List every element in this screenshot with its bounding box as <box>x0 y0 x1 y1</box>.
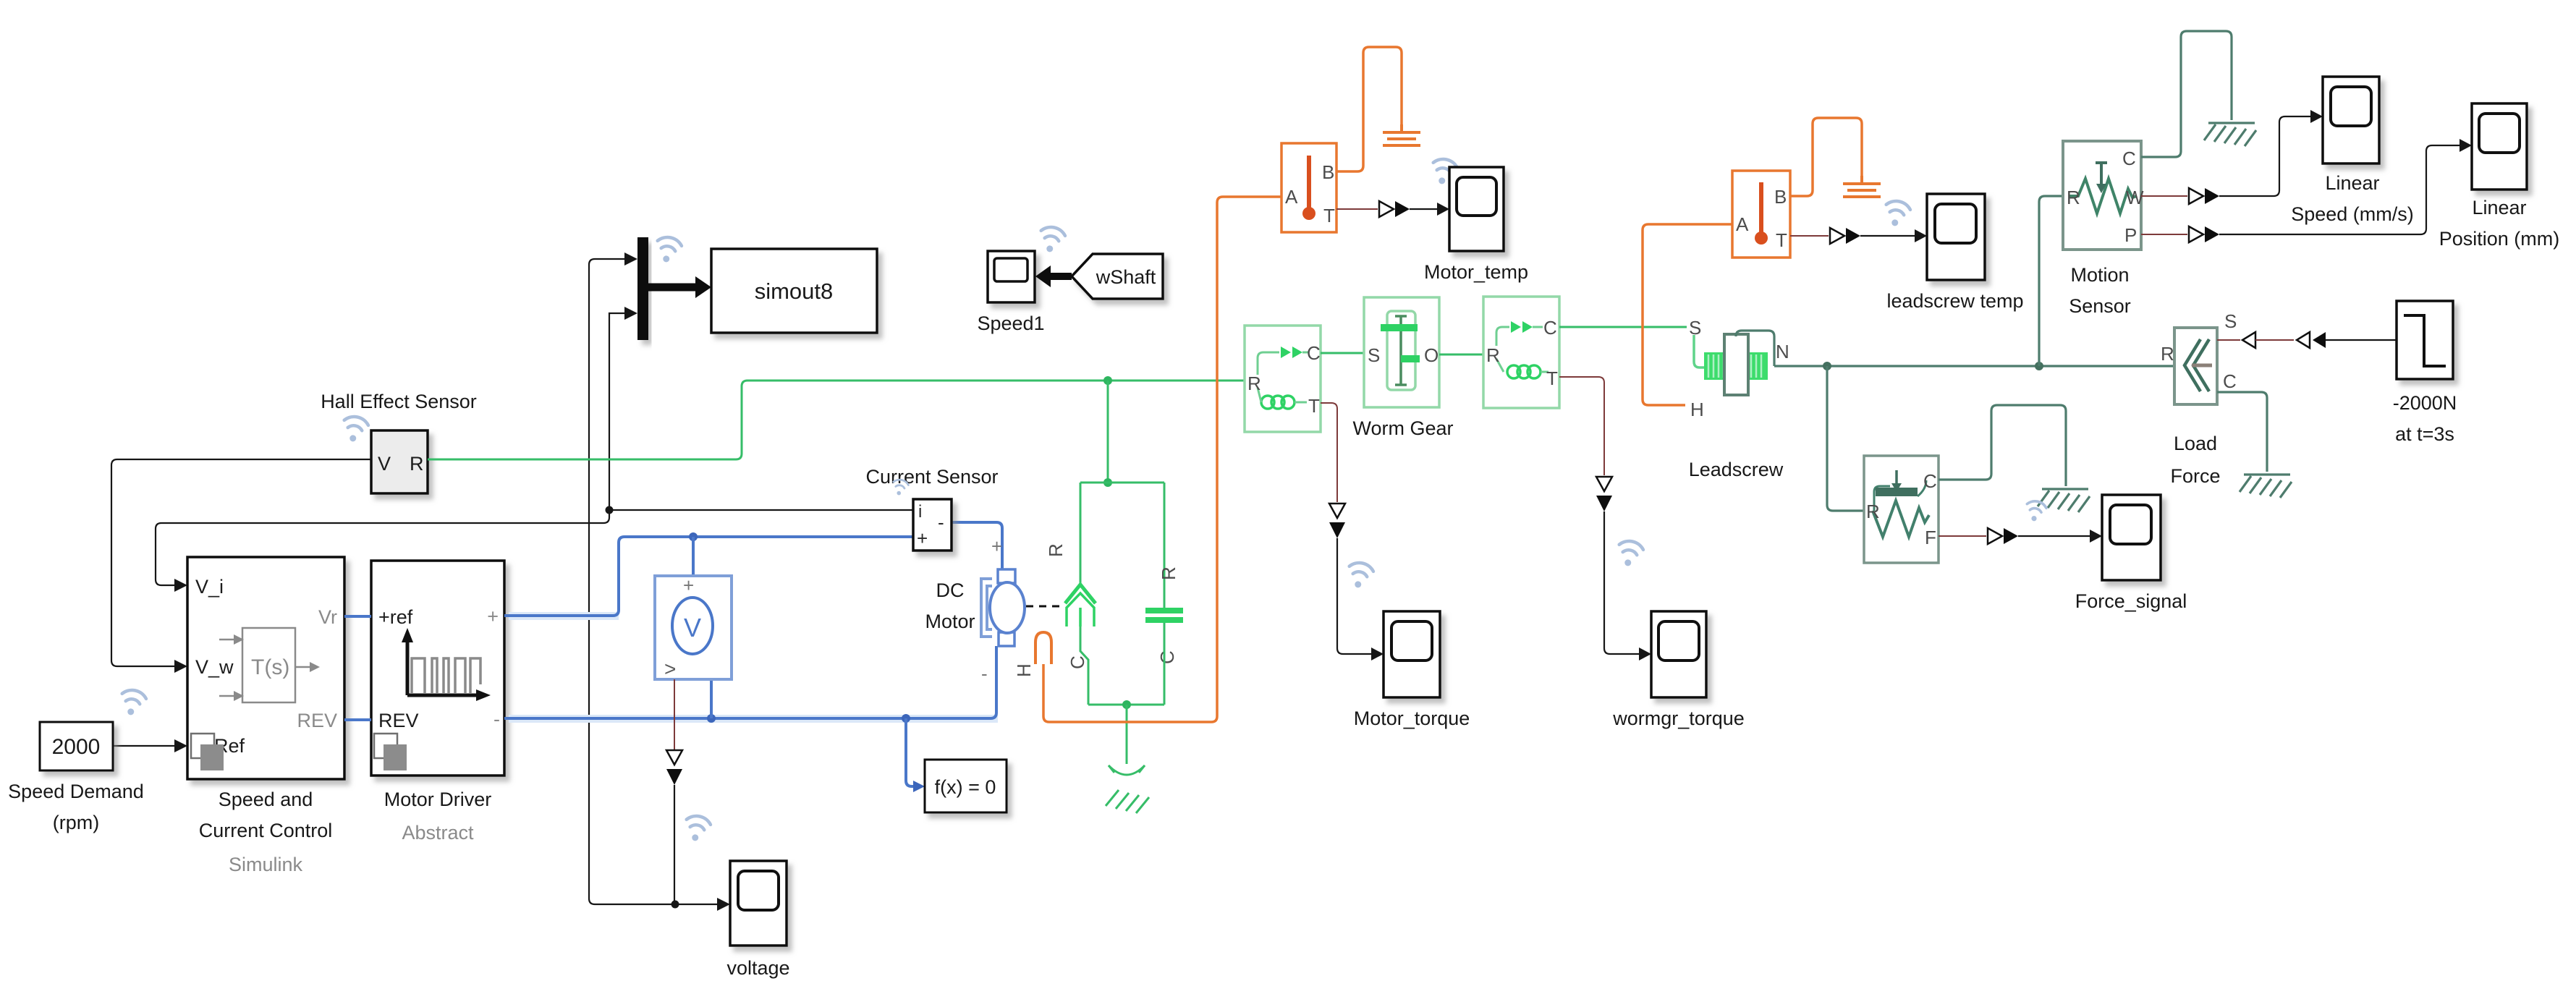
svg-text:C: C <box>1156 650 1178 664</box>
wire: position signal to Linear Position scope <box>2219 145 2460 234</box>
svg-text:Sensor: Sensor <box>2069 295 2131 317</box>
svg-text:A: A <box>1736 213 1749 235</box>
variant badge on controller <box>191 734 224 770</box>
label: Load Force <box>2170 433 2220 487</box>
svg-text:R: R <box>2161 343 2174 365</box>
svg-text:+: + <box>487 606 499 627</box>
svg-text:Speed and: Speed and <box>219 789 313 810</box>
svg-text:R: R <box>410 453 424 475</box>
selection halo under - return bus <box>509 715 998 723</box>
arrowhead into Motor_temp <box>1437 203 1449 216</box>
svg-text:Worm Gear: Worm Gear <box>1352 417 1453 439</box>
icon: PWM pulse train inside Motor Driver <box>407 641 478 695</box>
arrowhead into mux input 2 <box>624 307 637 320</box>
svg-text:R: R <box>1247 373 1261 394</box>
arrowhead into V_i <box>174 579 187 592</box>
svg-text:S: S <box>1368 344 1380 366</box>
block: Linear Position scope <box>2472 103 2527 190</box>
block: Speed Demand constant 2000 <box>40 722 113 770</box>
wire: force sensor C to translational reference (teal) <box>1939 405 2066 486</box>
wireless icon near constant <box>118 688 147 718</box>
wire: Worm Gear O to leadscrew friction R (green) <box>1439 354 1483 356</box>
PS-Simulink converter under voltage sensor <box>666 750 682 785</box>
block: f(x)=0 solver configuration <box>925 760 1007 812</box>
wire: sensor T output (maroon PS) <box>1336 208 1378 210</box>
arrowhead into Motor_torque <box>1371 647 1384 660</box>
arrowhead into V_w <box>174 660 187 673</box>
svg-text:H: H <box>1690 399 1704 420</box>
wireless icon near Hall sensor <box>340 415 369 444</box>
wire: Vr to +ref (blue) <box>344 615 371 618</box>
label: Speed Demand (rpm) <box>8 781 144 833</box>
svg-text:>: > <box>664 658 676 680</box>
svg-text:T: T <box>1546 368 1558 389</box>
wire: torque signal to Motor_torque scope <box>1337 538 1372 654</box>
svg-text:Force_signal: Force_signal <box>2075 590 2187 612</box>
svg-text:REV: REV <box>297 710 337 731</box>
wireless icon near force sensor ground <box>2024 499 2047 523</box>
svg-text:Linear: Linear <box>2325 172 2379 194</box>
PS-Simulink converter for speed signal <box>2189 188 2219 204</box>
variant badge on Motor Driver <box>374 734 407 770</box>
svg-text:at t=3s: at t=3s <box>2395 423 2454 445</box>
svg-text:S: S <box>2224 310 2237 332</box>
wire: motion sensor C to translational reference (teal) <box>2141 31 2232 157</box>
svg-text:Abstract: Abstract <box>402 822 474 844</box>
block: Hall Effect Sensor <box>371 430 428 493</box>
wire: torque signal to wormgr_torque scope <box>1604 511 1640 654</box>
damper (motor friction) icon <box>1045 543 1096 669</box>
block: Speed and Current Control subsystem <box>187 557 344 779</box>
wire: friction C to Leadscrew S (green) <box>1559 326 1687 328</box>
Simulink-PS converter for load force <box>2297 332 2326 348</box>
svg-text:+: + <box>991 535 1002 557</box>
svg-text:N: N <box>1776 341 1789 362</box>
svg-text:O: O <box>1424 344 1439 366</box>
wire: loop right branch upper (to inertia) <box>1164 483 1166 608</box>
wire: translational bus from Leadscrew N to Load Force R (teal) <box>1774 365 2174 367</box>
wire: motion sensor W output (maroon PS) <box>2141 195 2187 197</box>
wire: drop from shaft node to motor mechanical loop <box>1107 381 1109 483</box>
wire: mux output thick arrow to simout8 <box>648 276 711 298</box>
inertia icon (parallel plates) <box>1145 566 1183 664</box>
svg-text:B: B <box>1774 186 1787 208</box>
mux bar <box>637 237 648 340</box>
icon: T(s) transfer function inside controller <box>219 628 311 702</box>
wire: current sensor - output to DC motor + <box>952 522 1002 570</box>
wireless icon near Motor_torque <box>1345 561 1374 590</box>
junction: + node above voltage sensor <box>689 532 698 541</box>
svg-text:Force: Force <box>2170 465 2220 487</box>
svg-text:Speed Demand: Speed Demand <box>8 781 144 802</box>
svg-text:W: W <box>2126 187 2144 208</box>
tag: wShaft From <box>1072 254 1163 299</box>
PS-Simulink converter for force signal <box>1988 528 2018 544</box>
block: leadscrew shaft friction (green) <box>1483 297 1559 408</box>
wire: motion sensor P output (maroon PS) <box>2141 234 2187 235</box>
wire: drop from + node into voltage sensor <box>692 537 695 599</box>
svg-text:R: R <box>1486 344 1500 366</box>
block: DC Motor (electrical machine icon) <box>981 535 1025 684</box>
svg-text:C: C <box>1923 470 1937 492</box>
block: Motor_temp scope <box>1449 167 1504 251</box>
wire: voltage signal to mux input 1 (long riser) <box>589 259 675 904</box>
svg-text:leadscrew temp: leadscrew temp <box>1886 290 2023 312</box>
wire: Hall sensor V output to controller V_w <box>111 459 371 666</box>
arrowhead into Ref <box>174 739 187 752</box>
thermal mass 2 icon <box>1843 176 1881 197</box>
svg-text:+: + <box>683 574 694 596</box>
svg-text:Motor Driver: Motor Driver <box>384 789 492 810</box>
wire: friction T output (maroon PS) down <box>1321 403 1337 502</box>
ground: translational reference (motion sensor) <box>2204 123 2256 146</box>
wire: wShaft tag fat arrow into Speed1 <box>1035 266 1072 287</box>
label: -2000N at t=3s <box>2393 392 2457 445</box>
svg-text:T: T <box>1776 229 1787 251</box>
svg-text:V: V <box>684 613 701 642</box>
svg-text:Motor: Motor <box>925 611 975 632</box>
block: voltage sensor (blue) <box>655 574 732 680</box>
PS-Simulink converter for position signal <box>2189 226 2219 242</box>
svg-text:Linear: Linear <box>2472 197 2526 218</box>
label: Linear Position (mm) <box>2439 197 2560 250</box>
block: step source -2000N at t=3s <box>2397 301 2453 379</box>
wire: leadscrew thermal H to sensor A (orange) <box>1643 224 1732 405</box>
svg-text:C: C <box>1307 342 1321 364</box>
wireless icon near mux <box>653 235 682 265</box>
svg-text:V_i: V_i <box>195 576 224 598</box>
svg-text:Vr: Vr <box>318 606 337 628</box>
junction: loop bottom node <box>1122 700 1131 709</box>
wireless icon near current sensor <box>891 478 909 496</box>
PS-Simulink converter for motor torque <box>1329 504 1345 538</box>
block: leadscrew temp scope <box>1927 194 1985 280</box>
svg-text:P: P <box>2124 224 2137 246</box>
PS-Simulink converter for leadscrew temp <box>1830 228 1860 244</box>
svg-text:V: V <box>378 453 391 475</box>
svg-text:T(s): T(s) <box>251 655 289 679</box>
label: DC Motor <box>925 579 975 632</box>
svg-text:REV: REV <box>378 710 419 731</box>
wire: temp signal into Motor_temp scope <box>1410 208 1439 210</box>
svg-text:DC: DC <box>936 579 965 601</box>
DC motor thermal port H element (orange) <box>1013 632 1051 677</box>
svg-text:2000: 2000 <box>52 735 101 759</box>
ground: translational reference (load force) <box>2240 475 2292 498</box>
PS-Simulink converter for wormgear torque <box>1596 477 1612 511</box>
arrowhead into f(x)=0 <box>913 781 925 792</box>
wire: force sensor F output (maroon PS) <box>1939 535 1986 537</box>
wire: current signal branch to controller V_i <box>156 510 609 585</box>
svg-text:Leadscrew: Leadscrew <box>1689 459 1784 480</box>
wire: Motor Driver - output bus <box>504 646 996 718</box>
wire: bus tap up to motion sensor R (teal) <box>2039 196 2063 366</box>
svg-text:-: - <box>938 511 944 533</box>
wireless icon near wShaft <box>1037 225 1066 255</box>
wire: Motor Driver + output to current sensor + <box>504 537 913 616</box>
block: force sensor (teal) <box>1864 456 1939 563</box>
svg-text:Motor_temp: Motor_temp <box>1424 261 1528 283</box>
svg-text:-2000N: -2000N <box>2393 392 2457 414</box>
wire: loop left branch to damper <box>1080 483 1082 583</box>
junction: shaft node on green wire <box>1103 376 1112 385</box>
wire: bus tap to f(x)=0 solver <box>906 718 915 786</box>
svg-text:R: R <box>1866 501 1880 522</box>
wire: current signal to mux input 2 (vertical riser) <box>609 313 625 510</box>
block: Linear Speed scope <box>2323 77 2379 163</box>
block: Motor Driver <box>371 561 504 776</box>
svg-text:C: C <box>1543 317 1557 339</box>
PS input port marker at Load Force S <box>2217 332 2255 348</box>
svg-text:Position (mm): Position (mm) <box>2439 228 2560 250</box>
wire: current sensor i output <box>609 509 913 511</box>
block: Motion Sensor (teal) <box>2063 141 2144 250</box>
wire: Load Force C to translational reference (teal) <box>2217 392 2267 472</box>
svg-text:R: R <box>2067 187 2080 208</box>
label: Linear Speed (mm/s) <box>2291 172 2414 225</box>
wireless icon near voltage scope <box>682 814 711 844</box>
block: simout8 To-Workspace <box>711 249 877 333</box>
svg-text:R: R <box>1045 543 1067 557</box>
svg-text:Load: Load <box>2174 433 2217 454</box>
svg-text:Hall Effect Sensor: Hall Effect Sensor <box>321 391 477 412</box>
block: Leadscrew (screw + nut) <box>1689 317 1789 420</box>
wireless icon near leadscrew temp <box>1882 199 1911 229</box>
svg-text:Motion: Motion <box>2070 264 2129 286</box>
wire: sensor B to thermal mass 2 (orange) <box>1790 118 1862 196</box>
wire: damper to loop bottom <box>1080 626 1088 705</box>
wire: voltage sensor bottom to bus <box>692 651 711 718</box>
wire: thermal path motor H to temperature sensor A (orange) <box>1043 197 1281 722</box>
arrowhead into Force_signal <box>2090 530 2102 543</box>
arrowhead into Linear Position <box>2460 139 2472 152</box>
arrowhead into leadscrew temp scope <box>1915 229 1927 242</box>
dashed shaft link from motor to damper <box>1026 606 1064 608</box>
svg-text:V_w: V_w <box>195 656 234 678</box>
wire: bus tap down to force sensor R (teal) <box>1827 366 1864 511</box>
wire: temp signal into leadscrew temp scope <box>1860 235 1916 237</box>
block: Motor_torque scope <box>1384 611 1440 697</box>
wire: friction C to Worm Gear S (green) <box>1321 352 1364 354</box>
junction: force sensor tap node <box>1823 362 1831 370</box>
wireless icon near wormgr_torque <box>1615 539 1644 569</box>
wire: friction T output (maroon PS) down <box>1559 377 1604 475</box>
thermal mass 1 icon <box>1383 124 1420 145</box>
svg-text:wormgr_torque: wormgr_torque <box>1612 708 1745 729</box>
junction: motion sensor tap node <box>2035 362 2043 370</box>
arrowhead into mux input 1 <box>624 252 637 266</box>
wire: loop right branch lower <box>1164 623 1166 705</box>
svg-text:simout8: simout8 <box>755 279 834 304</box>
svg-text:B: B <box>1322 161 1334 183</box>
block: Load Force source (teal) <box>2161 310 2237 404</box>
PS-Simulink converter for motor temp <box>1379 201 1410 217</box>
wire: REV to REV (blue) <box>344 718 371 721</box>
svg-text:+: + <box>917 527 928 549</box>
block: Force_signal scope <box>2102 495 2161 580</box>
svg-text:+ref: +ref <box>378 606 413 628</box>
wire: mechanical loop bottom edge <box>1088 704 1164 706</box>
svg-text:Speed (mm/s): Speed (mm/s) <box>2291 203 2414 225</box>
svg-text:Simulink: Simulink <box>229 854 303 875</box>
wire: mechanical loop top edge <box>1080 482 1164 484</box>
svg-text:S: S <box>1689 317 1701 339</box>
wire: sensor B to thermal mass (orange) <box>1336 47 1402 171</box>
svg-text:voltage: voltage <box>726 957 789 979</box>
svg-text:H: H <box>1013 663 1035 677</box>
arrowhead into voltage scope <box>717 898 730 911</box>
label: Motor Driver / Abstract <box>384 789 492 844</box>
svg-text:Motor_torque: Motor_torque <box>1354 708 1470 729</box>
wire: step signal to converter <box>2326 339 2397 341</box>
wire: force signal into Force_signal scope <box>2018 535 2091 537</box>
wire: voltage sensor PS output (maroon) <box>674 679 675 749</box>
svg-text:i: i <box>918 502 922 522</box>
block: leadscrew temperature sensor (orange) <box>1732 171 1790 258</box>
block: Worm Gear (green) <box>1364 297 1439 407</box>
wire: 2000 constant to controller Ref <box>113 745 174 747</box>
svg-text:T: T <box>1323 205 1335 226</box>
ground: mechanical rotational reference <box>1106 765 1149 813</box>
block: Current Sensor <box>913 499 952 551</box>
wire: loop bottom to rotational reference <box>1126 705 1128 764</box>
junction: voltage signal node <box>671 901 679 909</box>
block: Speed1 scope <box>988 251 1035 302</box>
label: Speed and Current Control / Simulink <box>199 789 333 875</box>
svg-text:f(x) = 0: f(x) = 0 <box>935 776 996 798</box>
block: voltage scope <box>730 861 787 946</box>
wire: Hall R shaft speed line (green) <box>428 381 1245 459</box>
junction: loop top node <box>1103 478 1112 487</box>
svg-text:-: - <box>981 663 988 684</box>
block: motor temperature sensor (orange) <box>1281 143 1336 232</box>
wire: converted voltage signal down to scope bus <box>674 785 675 904</box>
junction: current signal node <box>606 506 614 514</box>
wireless icon near Motor_temp <box>1429 157 1458 187</box>
label: Motion Sensor <box>2069 264 2131 317</box>
wire: voltage signal into voltage scope <box>675 904 719 905</box>
svg-text:T: T <box>1308 395 1320 417</box>
svg-text:F: F <box>1925 527 1936 548</box>
svg-text:Speed1: Speed1 <box>977 313 1044 334</box>
svg-text:Current Sensor: Current Sensor <box>865 466 998 488</box>
svg-text:(rpm): (rpm) <box>53 812 99 833</box>
wire: sensor T output (maroon PS) <box>1790 235 1829 237</box>
wire: PS force command (maroon) <box>2255 339 2294 341</box>
svg-text:C: C <box>2223 370 2237 392</box>
arrowhead into wormgr_torque <box>1639 647 1651 660</box>
junction: f(x) solver tap node <box>902 714 910 723</box>
svg-text:A: A <box>1285 186 1298 208</box>
svg-text:-: - <box>493 708 500 730</box>
svg-text:R: R <box>1158 566 1179 580</box>
svg-text:wShaft: wShaft <box>1096 266 1156 288</box>
block: motor shaft friction (green) <box>1245 326 1321 432</box>
ground: translational reference (force sensor) <box>2038 489 2090 512</box>
selection halo under + supply wire <box>509 612 619 620</box>
svg-text:Current Control: Current Control <box>199 820 333 841</box>
arrowhead into Linear Speed <box>2310 110 2323 123</box>
block: wormgr_torque scope <box>1651 611 1706 697</box>
junction: voltage sensor - node <box>707 714 716 723</box>
svg-text:C: C <box>2122 148 2136 169</box>
wire: speed signal to Linear Speed scope <box>2219 116 2311 196</box>
